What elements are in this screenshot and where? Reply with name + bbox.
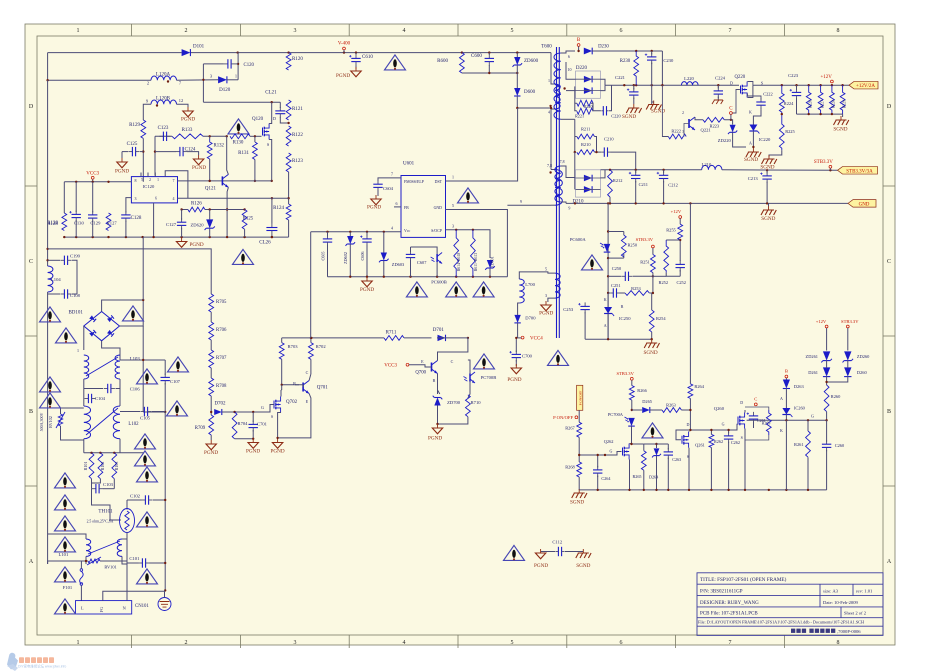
resistor R250 xyxy=(621,235,626,257)
svg-text:2: 2 xyxy=(149,178,151,182)
capacitor C701 xyxy=(249,420,258,431)
svg-text:6: 6 xyxy=(620,640,623,646)
svg-text:ZD700: ZD700 xyxy=(447,400,461,405)
svg-text:A: A xyxy=(887,559,892,565)
resistor R212 xyxy=(608,170,613,197)
svg-text:C129: C129 xyxy=(90,220,101,225)
svg-text:6: 6 xyxy=(620,28,623,34)
svg-text:FB: FB xyxy=(404,206,409,210)
op-amp IC120 box xyxy=(131,177,177,203)
svg-text:D: D xyxy=(740,400,743,405)
resistor R123 xyxy=(286,153,303,172)
svg-text:R251: R251 xyxy=(640,260,650,265)
svg-text:SGND: SGND xyxy=(651,109,665,115)
svg-text:7: 7 xyxy=(729,640,732,646)
ground SGND c112 xyxy=(576,549,591,558)
flag GND xyxy=(848,200,876,208)
svg-text:C604: C604 xyxy=(383,186,394,191)
warning triangle pc600a xyxy=(582,255,603,270)
svg-text:PGND: PGND xyxy=(428,436,442,442)
warning triangle xyxy=(135,434,156,449)
svg-text:6: 6 xyxy=(155,197,157,201)
ground PGND c112 xyxy=(535,549,545,559)
svg-text:PGND: PGND xyxy=(507,377,521,383)
resistor R126 xyxy=(188,202,205,212)
capacitor C101 xyxy=(138,558,149,567)
ground SGND r225 xyxy=(760,155,776,171)
wire D120 loop xyxy=(202,64,204,102)
svg-text:4: 4 xyxy=(391,226,393,231)
ground SGND c213 xyxy=(761,206,776,222)
svg-text:+12V: +12V xyxy=(820,75,832,80)
wire Q120 source xyxy=(269,140,272,181)
svg-text:4: 4 xyxy=(548,110,550,115)
svg-text:STB3.3V/3A: STB3.3V/3A xyxy=(846,169,873,174)
ic U601 box xyxy=(401,176,446,238)
svg-text:GND: GND xyxy=(434,206,443,210)
svg-text:CN101: CN101 xyxy=(135,604,149,609)
transistor Q261 xyxy=(682,432,689,448)
svg-text:FG: FG xyxy=(99,606,104,612)
svg-text:D701: D701 xyxy=(433,328,445,333)
inductor L104 xyxy=(48,266,53,292)
svg-text:PC700A: PC700A xyxy=(608,412,624,417)
svg-text:R128: R128 xyxy=(47,222,58,227)
warning triangle xyxy=(40,393,61,408)
wire L120B right xyxy=(177,104,189,107)
svg-text:8: 8 xyxy=(837,28,840,34)
svg-text:R211: R211 xyxy=(581,127,590,132)
svg-text:PC700B: PC700B xyxy=(481,375,497,380)
svg-text:PGND: PGND xyxy=(192,165,206,171)
wire rail pgnd xyxy=(64,236,288,238)
resistor R120 xyxy=(286,53,303,70)
capacitor C700 xyxy=(509,350,521,361)
transistor Q702 xyxy=(274,397,298,413)
ground PGND C125 xyxy=(115,158,129,175)
resistor R101 xyxy=(89,453,94,479)
svg-text:2: 2 xyxy=(185,640,188,646)
svg-text:1: 1 xyxy=(77,28,80,34)
svg-text:STB3.3V: STB3.3V xyxy=(841,319,859,324)
svg-text:C103: C103 xyxy=(103,482,114,487)
shunt IC220 xyxy=(749,125,759,134)
resistor R263 xyxy=(662,408,681,413)
warning triangle cl26 xyxy=(233,249,254,264)
wire left col xyxy=(47,80,49,266)
svg-text:ZD601: ZD601 xyxy=(490,256,495,267)
svg-text:C220: C220 xyxy=(611,114,621,119)
wire R708 down xyxy=(210,396,212,415)
svg-text:R252: R252 xyxy=(659,280,669,285)
wire th101 xyxy=(126,533,128,540)
T600 aux w3 xyxy=(555,273,560,298)
svg-text:TITLE: FSP107-2FS01 (OPEN FRA: TITLE: FSP107-2FS01 (OPEN FRAME) xyxy=(700,576,787,583)
svg-text:U601: U601 xyxy=(403,162,415,167)
zener ZD600 xyxy=(513,57,539,67)
svg-text:R222: R222 xyxy=(671,129,681,134)
choke L102 xyxy=(84,406,91,439)
wire R132 down xyxy=(209,159,211,181)
svg-text:size: A3: size: A3 xyxy=(823,589,839,594)
zener D264 xyxy=(652,448,661,457)
svg-text:SGND: SGND xyxy=(570,500,584,506)
resistor R705 xyxy=(209,294,214,312)
svg-text:R706: R706 xyxy=(216,328,227,333)
svg-text:D700: D700 xyxy=(525,316,536,321)
svg-text:R129: R129 xyxy=(129,123,140,128)
svg-text:C: C xyxy=(451,359,454,364)
svg-text:10: 10 xyxy=(568,67,572,72)
thermistor TH101 xyxy=(120,509,135,533)
ground PGND C700 xyxy=(507,364,521,383)
svg-text:4: 4 xyxy=(173,196,175,201)
resistor R262 xyxy=(709,434,714,447)
svg-text:G: G xyxy=(722,421,725,426)
zener ZD603 xyxy=(379,253,389,263)
opto PC700A led xyxy=(625,417,635,426)
capacitor C252 xyxy=(676,260,685,271)
warning triangle xyxy=(137,512,158,527)
capacitor C224 xyxy=(714,87,723,98)
resistor R224 xyxy=(779,85,784,114)
svg-text:A: A xyxy=(749,140,752,145)
resistor R226 xyxy=(806,85,811,114)
resistor R266 xyxy=(629,386,634,401)
svg-text:L700: L700 xyxy=(525,282,535,287)
svg-text:T600: T600 xyxy=(541,45,552,50)
svg-text:R711: R711 xyxy=(386,331,397,336)
bridge BD101 xyxy=(68,311,119,341)
warning triangle xyxy=(55,599,76,614)
wire bridge up xyxy=(142,237,144,300)
svg-text:VCC3: VCC3 xyxy=(86,172,99,177)
svg-text:ZD602: ZD602 xyxy=(343,252,348,264)
svg-text:Q260: Q260 xyxy=(714,406,725,411)
svg-text:5: 5 xyxy=(511,640,514,646)
wire U601 pin6 xyxy=(394,206,401,208)
warning triangle onoff xyxy=(642,423,663,438)
svg-text:B: B xyxy=(887,409,891,415)
svg-text:P ON/OFF: P ON/OFF xyxy=(553,415,573,420)
warning triangle xyxy=(40,307,61,322)
svg-text:R125: R125 xyxy=(243,217,254,222)
warning triangle xyxy=(137,467,158,482)
shunt IC260 xyxy=(782,408,792,417)
wire U601 pin4 xyxy=(311,231,401,233)
svg-text:R124: R124 xyxy=(273,206,284,211)
capacitor C103 xyxy=(92,484,103,493)
svg-text:+12V: +12V xyxy=(671,209,682,214)
zener ZD602 xyxy=(346,236,356,246)
svg-text:R614~R618: R614~R618 xyxy=(457,253,461,272)
wire c261 r269 xyxy=(745,407,769,410)
svg-text:Date: 10-Feb-2009: Date: 10-Feb-2009 xyxy=(823,600,859,605)
capacitor C261 xyxy=(747,412,759,423)
svg-text:Vcc: Vcc xyxy=(404,229,411,233)
resistor R132 xyxy=(207,139,212,159)
ground SGND fb xyxy=(643,339,659,356)
inductor L120A xyxy=(151,76,177,80)
resistor R710 xyxy=(466,395,471,417)
wire vcc feed xyxy=(282,337,384,339)
resistor R121 xyxy=(286,100,303,120)
T600 primary w2 xyxy=(555,170,562,206)
warning triangle pc700b xyxy=(474,354,495,369)
svg-text:DST: DST xyxy=(435,180,443,184)
zener ZD700 xyxy=(433,396,443,406)
svg-text:STB3.3V: STB3.3V xyxy=(814,160,833,165)
capacitor C230 xyxy=(645,53,657,64)
svg-text:S: S xyxy=(741,435,743,440)
warning triangle xyxy=(123,306,144,321)
svg-text:8: 8 xyxy=(135,178,137,183)
resistor R614-R618 xyxy=(454,230,459,277)
svg-text:C120: C120 xyxy=(244,63,255,68)
svg-text:ZD620: ZD620 xyxy=(190,222,204,227)
capacitor C212 xyxy=(657,171,669,182)
capacitor C129 xyxy=(88,211,97,222)
svg-text:C105: C105 xyxy=(140,416,151,421)
transformer T600 core xyxy=(556,47,558,338)
warning triangle xyxy=(55,567,76,582)
transistor Q121 xyxy=(222,174,228,187)
svg-text:D261: D261 xyxy=(808,370,818,375)
wire U601 pin1 xyxy=(446,108,518,181)
inductor L220 xyxy=(681,82,698,86)
wire 12V out xyxy=(753,84,850,86)
wire r225 sgnd xyxy=(769,150,782,157)
svg-text:R710: R710 xyxy=(471,400,482,405)
svg-text:D220: D220 xyxy=(576,66,588,71)
transistor Q701 xyxy=(303,381,328,394)
dual diode D210 xyxy=(572,170,600,205)
svg-text:D: D xyxy=(686,422,689,427)
ground PGND C610 xyxy=(336,67,361,79)
capacitor C105 xyxy=(140,407,151,416)
svg-text:F101: F101 xyxy=(63,585,73,590)
opto PC600A xyxy=(600,243,610,252)
svg-text:C124: C124 xyxy=(185,148,196,153)
svg-text:R709: R709 xyxy=(195,426,206,431)
wire D600 to T600 pin4 xyxy=(517,107,551,109)
ground PGND C604 xyxy=(367,195,381,211)
svg-text:R250: R250 xyxy=(628,243,638,248)
svg-text:G: G xyxy=(811,414,814,419)
capacitor CL21 xyxy=(275,107,285,118)
svg-text:RV101: RV101 xyxy=(104,565,116,570)
svg-text:PC600B: PC600B xyxy=(431,280,447,285)
varistor RV101 xyxy=(87,557,101,565)
resistor R611-R613 xyxy=(471,230,476,277)
wire dcminus xyxy=(48,249,212,294)
wire b260 node xyxy=(747,419,827,421)
svg-text:PC600A: PC600A xyxy=(570,237,587,242)
warning triangle U601r xyxy=(458,188,479,203)
svg-text:FM0SS/ELP: FM0SS/ELP xyxy=(404,180,425,184)
ground SGND sbrail xyxy=(572,489,587,498)
resistor R127 xyxy=(106,213,111,231)
wire U601 pin3 xyxy=(446,230,491,258)
svg-text:K: K xyxy=(604,297,607,302)
dual diode D220 xyxy=(576,66,601,98)
diode D263 xyxy=(783,380,790,389)
zener ZD261 xyxy=(821,351,832,362)
svg-text:PGND: PGND xyxy=(246,449,260,455)
warning triangle xyxy=(56,328,77,343)
svg-text:R263: R263 xyxy=(666,403,676,408)
svg-text:IC120: IC120 xyxy=(143,184,155,189)
resistor R703 xyxy=(279,343,284,360)
svg-text:5: 5 xyxy=(141,178,143,182)
resistor R128 xyxy=(47,213,67,231)
capacitor C107 xyxy=(161,373,170,384)
svg-text:D702: D702 xyxy=(214,402,226,407)
wire 3V3 rail xyxy=(601,169,702,171)
transistor Q220 xyxy=(741,82,748,98)
svg-text:D101: D101 xyxy=(193,45,205,50)
svg-text:Q700: Q700 xyxy=(415,371,426,376)
svg-text:C251: C251 xyxy=(611,283,621,288)
svg-text:R230: R230 xyxy=(620,59,631,64)
svg-text:DIY家电维修论坛 www.jdwx.info: DIY家电维修论坛 www.jdwx.info xyxy=(18,664,66,669)
capacitor CL26 xyxy=(266,224,277,235)
wire r222 xyxy=(662,85,668,136)
svg-text:C102: C102 xyxy=(130,494,141,499)
capacitor C607 xyxy=(406,250,415,261)
svg-text:RV102: RV102 xyxy=(48,416,53,428)
warning triangle u601b xyxy=(446,282,467,297)
svg-text:STB3.3V: STB3.3V xyxy=(616,371,634,376)
svg-text:ZD261: ZD261 xyxy=(806,354,818,359)
svg-text:3: 3 xyxy=(294,28,297,34)
warning triangle u601c xyxy=(473,282,494,297)
capacitor C210 xyxy=(601,147,610,156)
svg-text:A: A xyxy=(29,559,34,565)
choke L101 xyxy=(86,539,91,556)
capacitor C112 xyxy=(555,547,564,556)
svg-text:7: 7 xyxy=(729,28,732,34)
svg-text:SGND: SGND xyxy=(744,157,758,163)
resistor R702 xyxy=(309,343,314,360)
svg-text:rev: 1.01: rev: 1.01 xyxy=(856,589,873,594)
svg-text:S/OCP: S/OCP xyxy=(431,229,443,233)
svg-text:A: A xyxy=(780,396,783,401)
warning triangle c112 xyxy=(504,545,525,560)
svg-text:D230: D230 xyxy=(598,45,609,50)
svg-text:1: 1 xyxy=(157,178,159,182)
wire R600 C600 bottom xyxy=(462,72,517,74)
ground SGND C230 xyxy=(646,101,665,115)
svg-text:R122: R122 xyxy=(292,133,303,138)
svg-text:IC250: IC250 xyxy=(619,316,631,321)
svg-text:C101: C101 xyxy=(129,556,140,561)
capacitor C199 xyxy=(60,256,71,265)
opto PC600B xyxy=(431,253,443,264)
warning triangle xyxy=(135,451,156,466)
capacitor C610 xyxy=(349,54,373,65)
wire rv101 xyxy=(81,560,88,562)
svg-text:7: 7 xyxy=(173,178,175,183)
resistor R252 xyxy=(664,240,669,273)
svg-text:R705: R705 xyxy=(216,300,227,305)
svg-text:G: G xyxy=(609,449,612,454)
resistor R124 xyxy=(286,204,291,220)
warning triangle xyxy=(167,401,188,416)
zener ZD601 xyxy=(485,260,495,270)
svg-text:B: B xyxy=(433,378,436,383)
svg-text:L120B: L120B xyxy=(156,97,171,102)
wire U601 pin7 xyxy=(378,178,401,181)
wire R129 down xyxy=(142,138,144,181)
svg-text:R254: R254 xyxy=(656,316,666,321)
svg-text:C112: C112 xyxy=(552,540,562,545)
svg-text:SGND: SGND xyxy=(833,127,847,133)
svg-text:C607: C607 xyxy=(417,260,427,265)
svg-text:PGND: PGND xyxy=(539,311,553,317)
svg-text:Q701: Q701 xyxy=(317,386,329,391)
svg-text:C106: C106 xyxy=(130,387,141,392)
T600 primary w1 xyxy=(555,84,560,109)
resistor R221 xyxy=(577,108,593,114)
svg-text:L: L xyxy=(81,606,84,611)
svg-text:L102: L102 xyxy=(128,422,139,427)
warning triangle u601a xyxy=(406,282,427,297)
resistor R129 xyxy=(141,120,146,138)
svg-text:R707: R707 xyxy=(216,356,227,361)
resistor R229 xyxy=(840,85,845,114)
svg-text:D: D xyxy=(730,81,733,86)
svg-text:P/N: 3BS0211611GP: P/N: 3BS0211611GP xyxy=(700,590,743,595)
wire GND rail xyxy=(566,202,848,204)
ground PGND L120B xyxy=(181,107,195,123)
capacitor C104 xyxy=(84,394,95,403)
svg-text:R127: R127 xyxy=(107,220,118,225)
wire 3V3 rail2 xyxy=(722,169,838,172)
wire snubber xyxy=(575,103,577,111)
resistor R131 xyxy=(253,142,258,160)
wire fb bottom rail xyxy=(585,338,652,340)
earth ground xyxy=(158,598,171,611)
resistor R254 xyxy=(649,310,654,332)
resistor R122 xyxy=(286,126,303,146)
svg-text:2: 2 xyxy=(185,28,188,34)
wire filter mid xyxy=(142,326,144,412)
wire ic120 top net xyxy=(165,171,188,198)
diode D701 xyxy=(438,335,446,341)
svg-text:SGND: SGND xyxy=(761,216,775,222)
warning triangle xyxy=(55,495,76,510)
diode D700 xyxy=(514,315,520,323)
resistor R261 xyxy=(806,431,811,457)
ground gnd c224 xyxy=(712,100,723,104)
svg-text:C104: C104 xyxy=(95,396,106,401)
capacitor C253 xyxy=(578,302,590,313)
capacitor C102 xyxy=(141,495,152,504)
resistor R228 xyxy=(830,85,835,114)
wire pin4 line xyxy=(178,197,289,199)
svg-text:PGND: PGND xyxy=(367,205,381,211)
capacitor C220 xyxy=(601,106,608,115)
resistor R220 xyxy=(577,100,593,106)
svg-text:5: 5 xyxy=(452,203,454,208)
svg-text:1: 1 xyxy=(235,74,237,79)
connector CN101 xyxy=(76,601,132,614)
resistor R255 xyxy=(678,224,683,240)
svg-text:Q261: Q261 xyxy=(695,443,705,448)
ground PGND U601 xyxy=(360,277,374,293)
wire q221 base xyxy=(684,124,689,137)
